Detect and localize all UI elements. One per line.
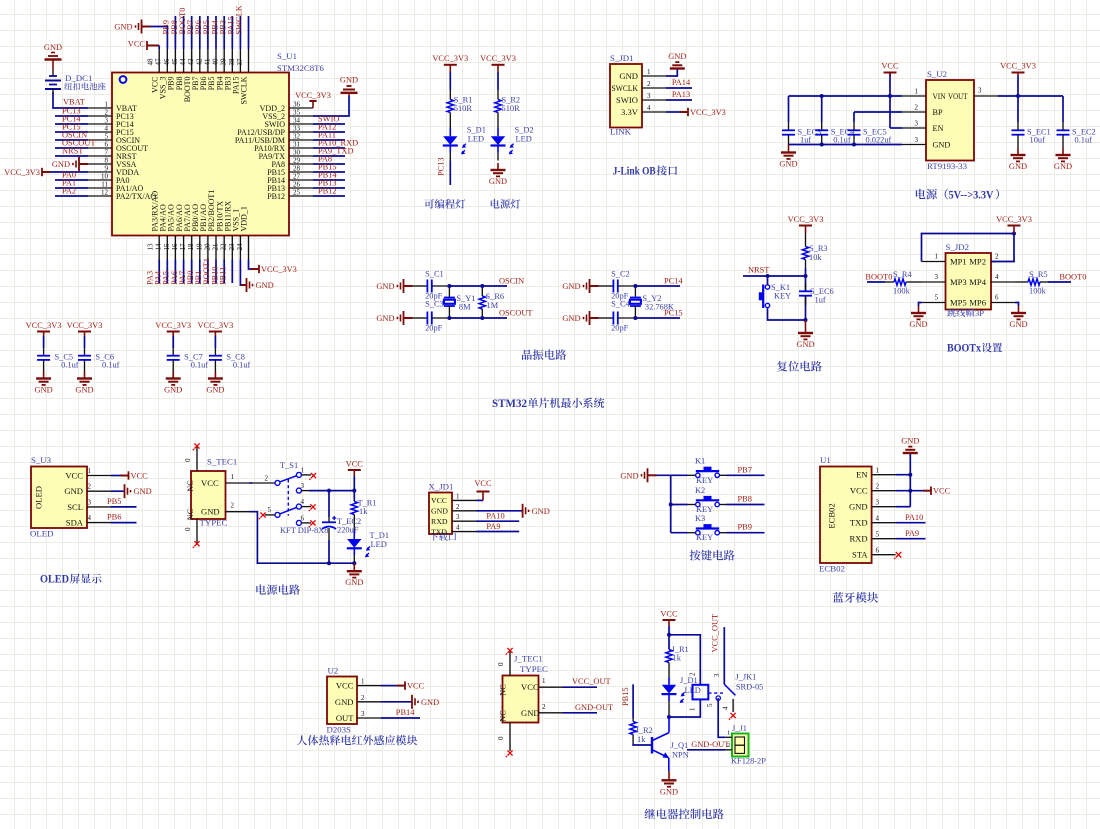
svg-text:GND: GND: [796, 340, 814, 349]
svg-text:U1: U1: [820, 455, 831, 465]
svg-text:S_D2: S_D2: [515, 126, 534, 135]
svg-text:VCC: VCC: [201, 478, 219, 488]
svg-text:GND: GND: [933, 141, 951, 150]
svg-text:S_JD1: S_JD1: [610, 53, 633, 63]
svg-text:VCC: VCC: [65, 471, 83, 481]
svg-text:GND: GND: [620, 471, 638, 480]
svg-text:5: 5: [105, 133, 109, 141]
svg-text:SRD-05: SRD-05: [736, 683, 763, 692]
svg-text:EN: EN: [856, 470, 868, 480]
svg-text:3: 3: [647, 92, 651, 100]
svg-text:MP4: MP4: [969, 277, 986, 287]
svg-text:K3: K3: [695, 514, 705, 523]
svg-text:OLED: OLED: [34, 486, 44, 509]
svg-text:BOOT0: BOOT0: [1059, 272, 1086, 281]
svg-text:GND: GND: [909, 320, 927, 329]
svg-text:3: 3: [105, 117, 109, 125]
svg-text:0.1uf: 0.1uf: [191, 361, 209, 370]
svg-text:1: 1: [915, 88, 919, 96]
svg-text:17: 17: [179, 243, 187, 251]
svg-text:1: 1: [876, 467, 880, 475]
svg-text:3: 3: [876, 499, 880, 507]
svg-text:2: 2: [231, 502, 235, 510]
svg-text:1: 1: [727, 730, 730, 737]
svg-text:VCC_3V3: VCC_3V3: [295, 91, 331, 100]
svg-text:GND: GND: [35, 386, 53, 395]
svg-text:VCC: VCC: [346, 460, 364, 469]
svg-text:2: 2: [456, 503, 460, 511]
svg-text:RXD: RXD: [849, 534, 867, 544]
svg-text:GND: GND: [340, 76, 358, 85]
svg-text:24: 24: [236, 243, 244, 251]
svg-text:SCL: SCL: [67, 502, 83, 512]
svg-text:44: 44: [179, 58, 187, 66]
svg-text:GND: GND: [345, 578, 363, 587]
svg-text:LED: LED: [516, 135, 532, 144]
svg-text:S_D1: S_D1: [467, 126, 486, 135]
svg-text:SWCLK: SWCLK: [240, 76, 249, 104]
svg-text:VCC_OUT: VCC_OUT: [711, 614, 720, 653]
svg-text:VCC_3V3: VCC_3V3: [155, 321, 191, 330]
svg-text:T_D1: T_D1: [370, 531, 390, 540]
svg-text:VOUT: VOUT: [948, 92, 968, 101]
svg-text:16: 16: [171, 243, 179, 251]
svg-text:BOOTx: BOOTx: [947, 341, 981, 355]
svg-text:OUT: OUT: [336, 713, 354, 723]
svg-text:OSCOUT: OSCOUT: [499, 309, 533, 318]
svg-text:9: 9: [105, 165, 109, 173]
svg-text:S_U2: S_U2: [927, 69, 947, 79]
svg-text:STM32C8T6: STM32C8T6: [277, 63, 325, 73]
svg-text:VCC: VCC: [521, 682, 539, 692]
svg-text:8M: 8M: [459, 303, 471, 312]
svg-text:OLED: OLED: [40, 572, 69, 586]
svg-text:VCC: VCC: [336, 681, 354, 691]
svg-text:1: 1: [542, 677, 546, 685]
svg-text:LINK: LINK: [610, 127, 632, 137]
svg-text:0: 0: [184, 527, 192, 531]
svg-text:VBAT: VBAT: [63, 98, 85, 107]
svg-text:VCC_3V3: VCC_3V3: [480, 54, 516, 63]
svg-text:GND: GND: [532, 507, 550, 516]
svg-text:28: 28: [293, 165, 301, 173]
svg-text:VCC: VCC: [128, 40, 146, 49]
svg-text:VCC: VCC: [474, 479, 492, 488]
svg-text:GND: GND: [52, 160, 70, 169]
svg-text:23: 23: [228, 243, 236, 251]
svg-text:1uf: 1uf: [800, 136, 811, 145]
svg-text:SDA: SDA: [66, 518, 84, 528]
svg-text:100k: 100k: [1029, 287, 1047, 296]
svg-text:1: 1: [689, 707, 697, 711]
svg-text:4: 4: [995, 273, 999, 281]
svg-text:STA: STA: [852, 550, 868, 560]
svg-text:7: 7: [105, 149, 109, 157]
svg-text:K1: K1: [695, 457, 705, 466]
svg-text:0.1uf: 0.1uf: [61, 361, 79, 370]
svg-text:1: 1: [361, 678, 365, 686]
svg-text:5: 5: [706, 703, 714, 707]
svg-text:S_U1: S_U1: [277, 51, 297, 61]
svg-text:PB14: PB14: [396, 708, 415, 717]
svg-text:3: 3: [88, 498, 92, 506]
svg-text:KEY: KEY: [774, 292, 791, 301]
svg-text:PB12: PB12: [318, 187, 337, 196]
svg-text:43: 43: [187, 58, 195, 66]
svg-text:J_R2: J_R2: [636, 726, 653, 735]
svg-text:X_JD1: X_JD1: [429, 482, 454, 492]
svg-text:1k: 1k: [637, 735, 646, 744]
svg-text:VCC_3V3: VCC_3V3: [197, 321, 233, 330]
svg-text:S_C4: S_C4: [611, 300, 630, 309]
svg-text:BOOT0: BOOT0: [865, 272, 892, 281]
svg-text:SWCLK: SWCLK: [235, 5, 244, 34]
svg-text:25: 25: [293, 189, 301, 197]
svg-text:S_C2: S_C2: [611, 270, 630, 279]
svg-text:K2: K2: [695, 486, 705, 495]
svg-text:10: 10: [101, 173, 109, 181]
svg-text:27: 27: [293, 173, 301, 181]
svg-text:510R: 510R: [454, 104, 473, 113]
svg-text:5V-->3.3V: 5V-->3.3V: [949, 189, 995, 201]
svg-text:GND-OUT: GND-OUT: [575, 703, 613, 712]
svg-text:J_JK1: J_JK1: [735, 673, 756, 682]
svg-text:1: 1: [935, 253, 939, 261]
svg-text:GND: GND: [668, 52, 686, 61]
svg-text:4: 4: [647, 104, 651, 112]
svg-text:4: 4: [88, 514, 92, 522]
svg-text:20pF: 20pF: [425, 324, 443, 333]
svg-text:510R: 510R: [502, 104, 521, 113]
svg-text:S_R6: S_R6: [486, 292, 505, 301]
svg-text:1: 1: [647, 68, 651, 76]
svg-text:ECB02: ECB02: [827, 503, 837, 528]
svg-text:ECB02: ECB02: [819, 564, 845, 574]
svg-text:4: 4: [876, 515, 880, 523]
svg-text:J_D1: J_D1: [680, 676, 698, 685]
svg-text:0: 0: [497, 662, 505, 666]
svg-text:GND: GND: [64, 486, 83, 496]
svg-text:VCC: VCC: [881, 62, 899, 71]
svg-text:PC14: PC14: [664, 277, 683, 286]
svg-text:OSCIN: OSCIN: [499, 277, 524, 286]
svg-text:VCC: VCC: [933, 487, 951, 496]
svg-text:35: 35: [293, 109, 301, 117]
svg-text:KEY: KEY: [696, 533, 713, 542]
svg-text:31: 31: [293, 141, 301, 149]
svg-text:1: 1: [456, 492, 460, 500]
svg-text:GND: GND: [619, 71, 638, 81]
svg-text:VCC_3V3: VCC_3V3: [432, 54, 468, 63]
svg-text:PC15: PC15: [664, 309, 683, 318]
svg-text:GND: GND: [44, 43, 62, 52]
svg-text:GND: GND: [206, 386, 224, 395]
svg-text:3: 3: [361, 710, 365, 718]
svg-text:GND: GND: [201, 507, 220, 517]
svg-text:GND: GND: [431, 507, 448, 516]
svg-text:NRST: NRST: [62, 147, 83, 156]
svg-text:2: 2: [542, 703, 546, 711]
svg-text:VDD_1: VDD_1: [240, 206, 249, 231]
svg-text:3.3V: 3.3V: [621, 107, 639, 117]
svg-text:15: 15: [163, 243, 171, 251]
svg-text:18: 18: [187, 243, 195, 251]
svg-text:GND: GND: [849, 502, 868, 512]
svg-text:3P: 3P: [975, 308, 984, 318]
svg-text:0.1uf: 0.1uf: [833, 136, 851, 145]
svg-text:VCC: VCC: [431, 496, 447, 505]
svg-text:3: 3: [978, 87, 982, 95]
svg-text:VCC_3V3: VCC_3V3: [261, 265, 297, 274]
svg-text:39: 39: [220, 58, 228, 66]
svg-text:PA10: PA10: [486, 512, 504, 521]
svg-text:2: 2: [915, 104, 919, 112]
svg-text:SWCLK: SWCLK: [612, 83, 639, 93]
svg-text:2: 2: [876, 483, 880, 491]
svg-text:100k: 100k: [893, 287, 911, 296]
svg-text:GND: GND: [901, 437, 919, 446]
svg-text:4: 4: [456, 524, 460, 532]
svg-text:GND: GND: [660, 787, 678, 796]
svg-text:MP6: MP6: [969, 298, 986, 308]
svg-text:PB7: PB7: [738, 465, 752, 474]
svg-text:GND: GND: [335, 697, 354, 707]
svg-text:21: 21: [212, 243, 220, 251]
svg-text:6: 6: [876, 547, 880, 555]
svg-text:MP2: MP2: [969, 257, 986, 267]
svg-text:5: 5: [876, 531, 880, 539]
svg-text:NC: NC: [186, 480, 195, 492]
svg-text:GND: GND: [134, 487, 152, 496]
svg-text:0.022uf: 0.022uf: [866, 136, 892, 145]
svg-text:13: 13: [147, 243, 155, 251]
svg-text:PB15: PB15: [621, 687, 630, 706]
svg-text:J_TEC1: J_TEC1: [514, 654, 543, 664]
svg-text:3: 3: [915, 120, 919, 128]
svg-text:RT9193-33: RT9193-33: [927, 161, 968, 171]
svg-text:GND-OUT: GND-OUT: [691, 740, 729, 749]
svg-text:0.1uf: 0.1uf: [233, 361, 251, 370]
svg-text:29: 29: [293, 157, 301, 165]
svg-text:VCC_3V3: VCC_3V3: [4, 168, 40, 177]
svg-text:33: 33: [293, 125, 301, 133]
svg-text:3: 3: [713, 673, 721, 677]
svg-text:1: 1: [231, 473, 235, 481]
svg-text:6: 6: [995, 294, 999, 302]
svg-text:VCC: VCC: [407, 682, 425, 691]
svg-text:VCC: VCC: [131, 472, 149, 481]
svg-text:TYPEC: TYPEC: [520, 664, 548, 674]
svg-text:LED: LED: [371, 540, 387, 549]
svg-text:KF128-2P: KF128-2P: [731, 757, 766, 766]
svg-text:6: 6: [105, 141, 109, 149]
svg-text:3: 3: [456, 513, 460, 521]
svg-text:48: 48: [147, 58, 155, 66]
svg-text:1k: 1k: [673, 654, 682, 663]
svg-text:S_TEC1: S_TEC1: [207, 457, 237, 467]
svg-text:36: 36: [293, 101, 301, 109]
svg-text:GND: GND: [376, 314, 394, 323]
svg-text:LED: LED: [468, 135, 484, 144]
svg-text:GND: GND: [521, 708, 540, 718]
svg-text:0.1uf: 0.1uf: [1075, 136, 1093, 145]
svg-text:KEY: KEY: [696, 505, 713, 514]
svg-text:2: 2: [647, 80, 651, 88]
svg-text:4: 4: [301, 498, 305, 506]
svg-text:S_U3: S_U3: [31, 455, 52, 465]
svg-text:VCC_3V3: VCC_3V3: [788, 215, 824, 224]
svg-text:22: 22: [220, 243, 228, 251]
svg-text:D203S: D203S: [327, 725, 352, 735]
svg-text:PB11: PB11: [219, 267, 228, 285]
svg-text:20: 20: [203, 243, 211, 251]
svg-text:3: 3: [935, 273, 939, 281]
svg-text:VIN: VIN: [933, 92, 946, 101]
svg-text:NC: NC: [499, 710, 508, 722]
svg-text:PA9: PA9: [905, 529, 919, 538]
svg-text:VCC_3V3: VCC_3V3: [26, 321, 62, 330]
svg-text:GND: GND: [489, 177, 507, 186]
svg-text:MP1: MP1: [950, 257, 967, 267]
svg-text:220uF: 220uF: [337, 526, 359, 535]
svg-text:GND: GND: [562, 282, 580, 291]
svg-text:20pF: 20pF: [611, 324, 629, 333]
svg-text:GND: GND: [114, 23, 132, 32]
svg-text:NRST: NRST: [748, 266, 769, 275]
svg-text:1: 1: [88, 467, 92, 475]
svg-text:34: 34: [293, 117, 301, 125]
svg-text:GND: GND: [164, 386, 182, 395]
svg-text:VCC: VCC: [850, 486, 868, 496]
svg-text:S_R4: S_R4: [893, 270, 912, 279]
svg-text:30: 30: [293, 149, 301, 157]
svg-text:GND: GND: [1054, 162, 1072, 171]
svg-text:J-Link OB: J-Link OB: [613, 164, 656, 178]
svg-text:VCC: VCC: [660, 610, 678, 619]
svg-text:45: 45: [171, 58, 179, 66]
svg-text:T_S1: T_S1: [280, 461, 298, 470]
svg-text:PC13: PC13: [436, 157, 445, 176]
svg-text:PA2: PA2: [62, 187, 76, 196]
svg-text:KEY: KEY: [696, 476, 713, 485]
svg-text:MP3: MP3: [950, 277, 967, 287]
svg-text:PB6: PB6: [107, 513, 121, 522]
svg-text:S_R5: S_R5: [1029, 270, 1048, 279]
svg-text:SWIO: SWIO: [616, 95, 638, 105]
svg-text:PB9: PB9: [738, 523, 752, 532]
svg-text:J_Q1: J_Q1: [671, 741, 689, 750]
svg-text:VCC_3V3: VCC_3V3: [1000, 62, 1036, 71]
svg-text:3: 3: [915, 136, 919, 144]
svg-text:0: 0: [497, 736, 505, 740]
svg-text:NPN: NPN: [672, 751, 689, 760]
svg-text:19: 19: [195, 243, 203, 251]
svg-text:TYPEC: TYPEC: [200, 518, 228, 528]
svg-text:U2: U2: [328, 666, 339, 676]
svg-text:J_J1: J_J1: [732, 724, 747, 733]
svg-text:VCC_3V3: VCC_3V3: [67, 321, 103, 330]
svg-text:GND: GND: [421, 698, 439, 707]
svg-text:2: 2: [105, 109, 109, 117]
svg-text:PB12: PB12: [267, 192, 285, 201]
svg-text:11: 11: [101, 181, 108, 189]
svg-text:S_JD2: S_JD2: [946, 242, 969, 252]
svg-text:PB5: PB5: [107, 497, 121, 506]
svg-text:47: 47: [155, 58, 163, 66]
svg-text:PA13: PA13: [672, 90, 690, 99]
svg-text:4: 4: [105, 125, 109, 133]
svg-text:32: 32: [293, 133, 301, 141]
svg-text:PA10: PA10: [905, 513, 923, 522]
svg-text:2: 2: [361, 694, 365, 702]
svg-text:5: 5: [268, 506, 272, 514]
svg-text:EN: EN: [933, 124, 944, 133]
svg-text:38: 38: [228, 58, 236, 66]
svg-text:42: 42: [195, 58, 203, 66]
svg-text:0.1uf: 0.1uf: [102, 361, 120, 370]
svg-text:S_C3: S_C3: [425, 300, 444, 309]
svg-text:VCC_OUT: VCC_OUT: [572, 677, 611, 686]
svg-text:26: 26: [293, 181, 301, 189]
svg-text:GND: GND: [75, 386, 93, 395]
svg-text:2: 2: [995, 253, 999, 261]
svg-text:GND: GND: [562, 314, 580, 323]
svg-text:8: 8: [105, 157, 109, 165]
svg-text:10uf: 10uf: [1030, 136, 1046, 145]
svg-text:VCC_3V3: VCC_3V3: [690, 108, 726, 117]
svg-text:1: 1: [105, 101, 109, 109]
svg-text:MP5: MP5: [950, 298, 967, 308]
svg-text:GND: GND: [256, 281, 274, 290]
svg-text:OLED: OLED: [30, 529, 53, 539]
svg-text:10k: 10k: [809, 253, 822, 262]
svg-text:TXD: TXD: [850, 518, 868, 528]
svg-text:PA14: PA14: [672, 78, 691, 87]
svg-text:2: 2: [88, 483, 92, 491]
svg-text:S_R3: S_R3: [809, 244, 828, 253]
svg-text:NC: NC: [499, 684, 508, 696]
svg-text:GND: GND: [376, 282, 394, 291]
svg-text:1k: 1k: [359, 507, 368, 516]
svg-text:NC: NC: [186, 508, 195, 520]
svg-text:2: 2: [265, 475, 269, 483]
svg-text:BP: BP: [933, 108, 943, 117]
svg-text:KFT DIP-8X8: KFT DIP-8X8: [280, 526, 328, 535]
svg-text:GND: GND: [1009, 320, 1027, 329]
svg-text:VCC_3V3: VCC_3V3: [996, 215, 1032, 224]
svg-text:6: 6: [301, 515, 305, 523]
svg-text:1M: 1M: [487, 301, 499, 310]
svg-text:S_C1: S_C1: [425, 270, 444, 279]
svg-text:PB8: PB8: [738, 495, 752, 504]
svg-text:37: 37: [236, 58, 244, 66]
svg-text:2: 2: [689, 672, 697, 676]
svg-text:1uf: 1uf: [815, 296, 826, 305]
svg-text:40: 40: [212, 58, 220, 66]
svg-text:4: 4: [721, 706, 729, 710]
svg-text:STM32: STM32: [492, 396, 527, 410]
svg-text:RXD: RXD: [431, 517, 448, 526]
svg-text:3: 3: [301, 482, 305, 490]
svg-text:D_DC1: D_DC1: [65, 73, 92, 83]
svg-text:PA9: PA9: [486, 522, 500, 531]
svg-text:TXD: TXD: [431, 527, 447, 536]
svg-text:41: 41: [203, 58, 211, 66]
svg-text:12: 12: [101, 189, 109, 197]
svg-text:14: 14: [155, 243, 163, 251]
svg-text:5: 5: [935, 294, 939, 302]
svg-text:1: 1: [301, 467, 305, 475]
